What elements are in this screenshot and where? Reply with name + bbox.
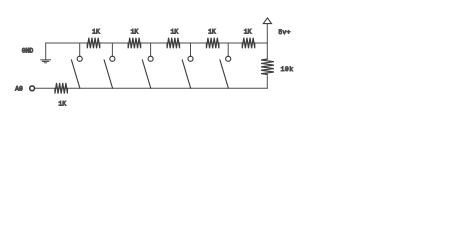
resistor R3 1K [167,38,180,49]
ground [41,60,51,63]
resistor R6 1K (series on A0) [55,83,67,94]
switch S5 stub wire [227,43,229,56]
switch S5 contact [226,56,231,61]
svg-text:10k: 10k [281,66,294,73]
switch S3 blade [142,60,151,89]
resistor R2 1K [128,38,141,49]
svg-text:1K: 1K [58,100,66,107]
switch S1 blade [71,60,80,89]
switch S4 blade [182,60,191,89]
switch S2 blade [104,60,113,89]
svg-text:A0: A0 [15,85,23,92]
svg-text:GND: GND [22,47,34,54]
switch S2 contact [110,56,115,61]
power 5v+ arrow [263,18,271,24]
resistor R5 1K [242,38,255,49]
svg-text:1K: 1K [171,28,179,35]
switch S4 stub wire [190,43,192,56]
wire bottom rail [35,87,267,89]
switch S4 contact [188,56,193,61]
wire top rail [46,42,268,44]
switch S3 stub wire [150,43,152,56]
resistor R4 1K [206,38,219,49]
svg-text:1K: 1K [244,28,252,35]
resistor R7 10k (pull-up) [261,59,274,74]
switch S5 blade [220,60,229,89]
wire GND drop [45,43,47,60]
svg-text:1K: 1K [208,28,216,35]
switch S2 stub wire [111,43,113,56]
resistor R1 1K [87,38,100,49]
wire 10k to bottom rail [266,74,268,88]
wire top rail to 10k [266,43,268,59]
svg-text:1K: 1K [131,28,139,35]
switch S1 contact [77,56,82,61]
wire 5v+ drop to top rail [266,24,268,43]
svg-text:1K: 1K [92,28,100,35]
svg-text:5v+: 5v+ [278,29,290,36]
switch S1 stub wire [79,43,81,56]
switch S3 contact [148,56,153,61]
terminal A0 [30,86,35,91]
